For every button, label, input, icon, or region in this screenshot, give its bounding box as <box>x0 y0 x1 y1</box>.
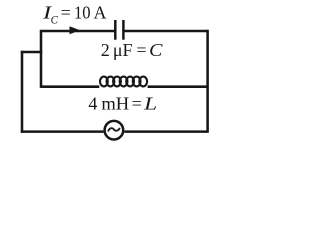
svg-text:=: = <box>132 93 142 113</box>
svg-text:μF: μF <box>113 40 133 60</box>
svg-text:10: 10 <box>74 3 91 23</box>
svg-text:=: = <box>61 3 71 23</box>
svg-text:C: C <box>149 40 163 60</box>
svg-text:C: C <box>51 15 59 27</box>
svg-text:L: L <box>143 93 157 113</box>
svg-text:=: = <box>136 40 146 60</box>
svg-text:2: 2 <box>101 40 110 60</box>
svg-text:4: 4 <box>88 93 97 113</box>
svg-text:A: A <box>94 3 107 23</box>
svg-text:mH: mH <box>101 93 129 113</box>
